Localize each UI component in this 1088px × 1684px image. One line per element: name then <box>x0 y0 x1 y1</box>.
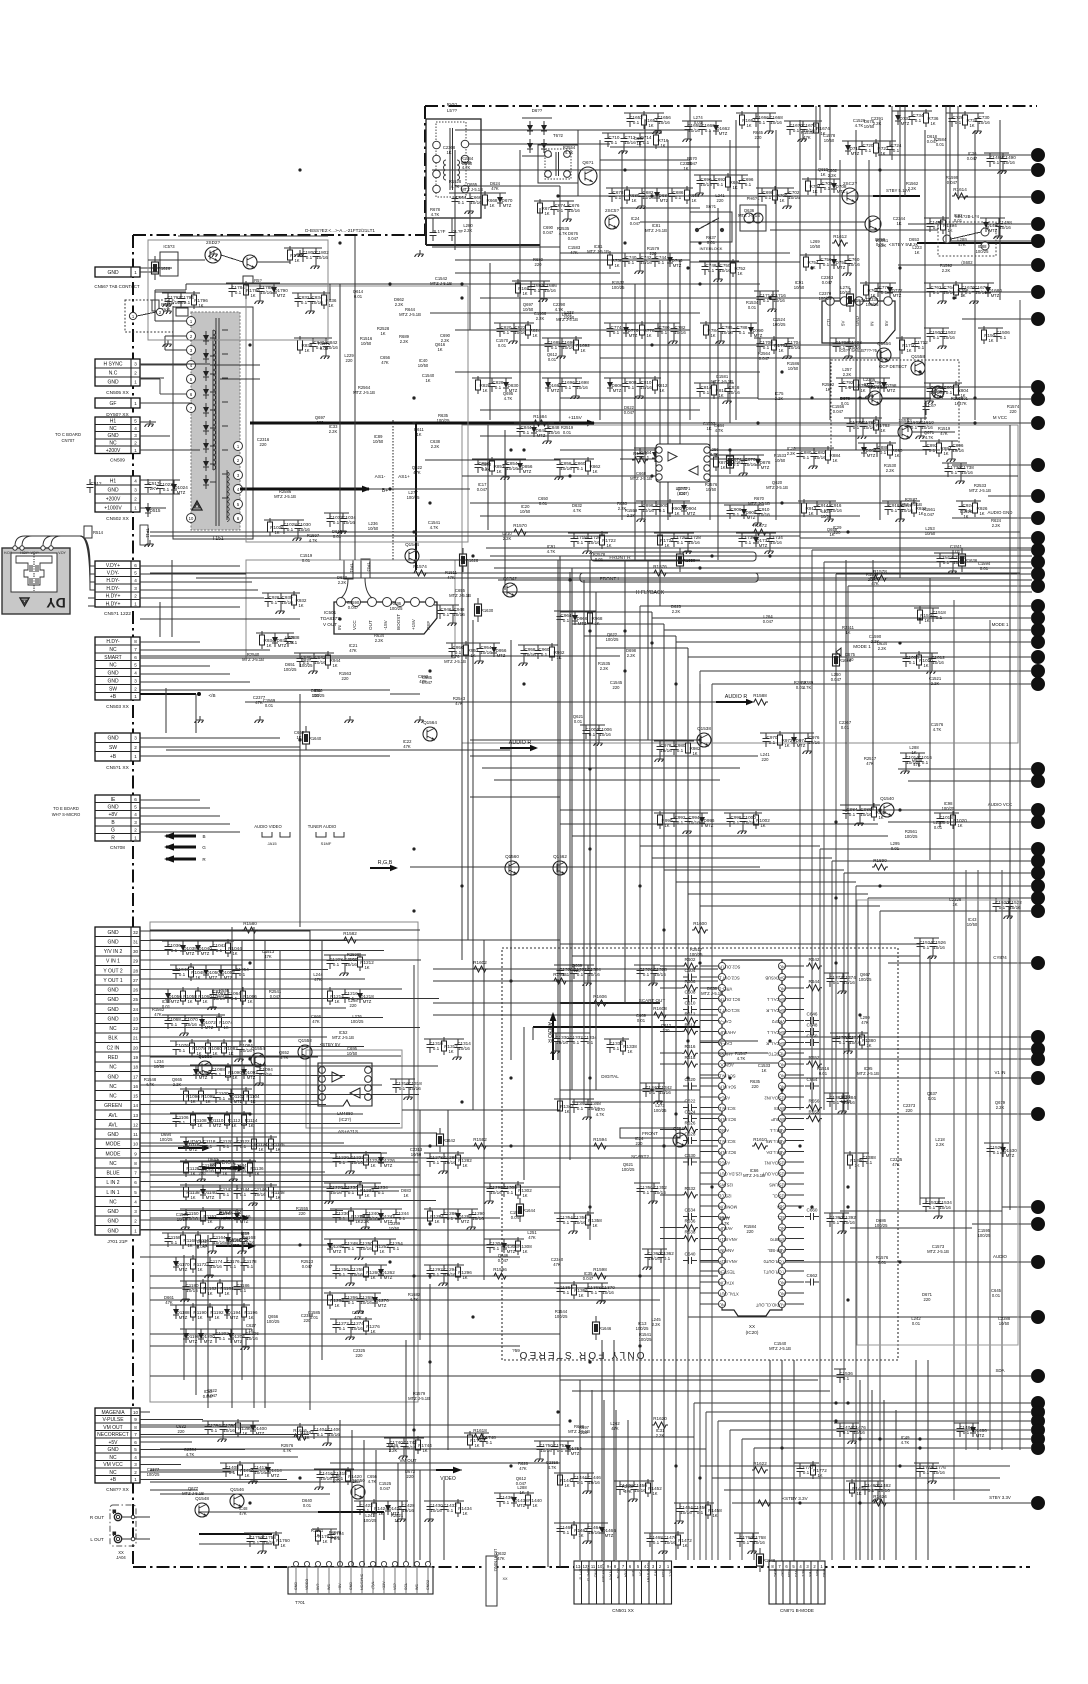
svg-text:INTERLOCK: INTERLOCK <box>700 246 723 251</box>
capacitor C1013 <box>903 753 920 767</box>
wire scart stub <box>140 930 310 932</box>
wire cluster bus <box>640 1082 665 1084</box>
capacitor C1509 <box>918 418 935 432</box>
svg-text:10/16: 10/16 <box>719 268 731 273</box>
node offpage-25 <box>1032 665 1045 678</box>
svg-text:0.1: 0.1 <box>563 1220 570 1225</box>
wire to offpage node <box>758 1036 1032 1038</box>
wire <box>621 150 623 520</box>
op-amp IC202 pin 5 <box>365 1094 372 1101</box>
resistor R967 <box>588 609 603 627</box>
resistor R1025 <box>268 518 285 536</box>
node offpage-28 <box>1032 775 1045 788</box>
svg-text:10/16: 10/16 <box>588 1530 600 1535</box>
svg-text:GND: GND <box>107 433 119 439</box>
svg-text:10/16: 10/16 <box>444 1272 456 1277</box>
capacitor C1757 <box>260 1533 277 1547</box>
svg-text:1K: 1K <box>544 211 549 216</box>
ic IC201 left pin 29 <box>718 1267 735 1274</box>
svg-text:0.1: 0.1 <box>929 1205 936 1210</box>
ground <box>571 392 580 399</box>
wire <box>178 235 328 237</box>
wire <box>712 1477 1000 1479</box>
ic IC201 right pin 34 <box>778 1289 785 1296</box>
capacitor C853 <box>503 459 519 473</box>
svg-text:10: 10 <box>133 1410 139 1415</box>
svg-text:NC: NC <box>719 1302 725 1307</box>
svg-text:VS?: VS? <box>393 1583 397 1590</box>
flyback tick <box>210 373 216 375</box>
svg-text:L IN 1: L IN 1 <box>106 1190 119 1196</box>
resistor R1595 <box>492 1267 508 1279</box>
wire to offpage node <box>1002 1206 1032 1208</box>
wire <box>872 560 874 810</box>
svg-text:10/16: 10/16 <box>574 1220 586 1225</box>
svg-text:10/16: 10/16 <box>430 1508 442 1513</box>
wire cluster bus <box>312 1528 337 1530</box>
wire connector stub <box>140 449 200 451</box>
svg-text:1K: 1K <box>332 663 337 668</box>
ground <box>838 1227 847 1234</box>
svg-text:WS: WS <box>415 1584 419 1590</box>
flyback pin 16 <box>234 514 243 523</box>
connector DY505 <box>95 398 140 418</box>
svg-text:R1594: R1594 <box>593 1137 607 1142</box>
op-amp IC471 pin 5 <box>704 474 710 480</box>
svg-text:V.DY-: V.DY- <box>107 571 120 577</box>
junction <box>588 1076 591 1079</box>
resistor R667 <box>483 191 498 209</box>
wire IC201 left stub <box>700 1052 719 1054</box>
svg-text:0.1: 0.1 <box>943 560 950 565</box>
wire scart stub <box>140 1084 382 1086</box>
svg-text:0.1: 0.1 <box>763 345 770 350</box>
wire bus vertical <box>855 886 857 1560</box>
wire cluster bus <box>604 377 661 379</box>
wire IC201 right stub <box>786 1292 805 1294</box>
svg-text:10/16: 10/16 <box>185 1022 197 1027</box>
svg-text:1K: 1K <box>969 123 974 128</box>
capacitor C1221 <box>348 1153 365 1167</box>
svg-text:0.1: 0.1 <box>839 345 846 350</box>
wire <box>600 159 690 161</box>
capacitor C1765 <box>737 1533 754 1547</box>
svg-text:0.1: 0.1 <box>317 1432 324 1437</box>
transistor Q602 <box>605 208 619 229</box>
svg-text:R1598: R1598 <box>593 1267 607 1272</box>
wire bus vertical <box>799 538 801 1110</box>
wire <box>559 186 561 423</box>
resistor R1103 <box>244 1087 261 1105</box>
svg-text:10/16: 10/16 <box>599 732 611 737</box>
svg-text:8: 8 <box>134 1425 137 1430</box>
ground <box>844 1047 853 1054</box>
wire scart stub <box>140 1219 380 1221</box>
wire <box>300 1469 462 1471</box>
svg-text:GND: GND <box>107 1007 119 1013</box>
resistor R1001 <box>754 811 771 829</box>
capacitor C621 <box>683 1099 697 1112</box>
ground <box>669 337 678 344</box>
wire cluster bus <box>554 1472 594 1474</box>
wire <box>140 618 300 620</box>
resistor R1213 <box>328 987 345 1005</box>
svg-text:0.1: 0.1 <box>507 1190 514 1195</box>
svg-text:NC: NC <box>779 965 785 970</box>
resistor fusible R1645 <box>593 1316 612 1340</box>
wire <box>687 648 689 1262</box>
ground <box>619 147 628 154</box>
ic IC201 left pin 30 <box>718 1278 734 1285</box>
wire <box>560 809 887 811</box>
capacitor C1667 <box>767 113 784 127</box>
svg-text:V.DY: V.DY <box>58 551 66 555</box>
wire <box>430 312 700 314</box>
resistor R1123 <box>252 1135 269 1153</box>
ground <box>798 135 807 142</box>
svg-text:17: 17 <box>133 1075 139 1080</box>
wire scart stub <box>140 1113 363 1115</box>
diode D1529 <box>1000 1143 1017 1157</box>
resistor R512 box <box>243 276 263 284</box>
resistor R1593 <box>592 1137 608 1149</box>
wire +B arrow <box>568 415 596 426</box>
svg-text:0.1: 0.1 <box>240 1144 247 1149</box>
resistor R1095 <box>184 1087 201 1105</box>
svg-text:1K: 1K <box>778 348 783 353</box>
ground <box>425 1515 434 1522</box>
svg-text:1K: 1K <box>274 530 279 535</box>
svg-text:4: 4 <box>134 479 137 484</box>
svg-text:1K: 1K <box>496 469 501 474</box>
capacitor C923 <box>959 501 974 515</box>
svg-text:5: 5 <box>134 1447 137 1452</box>
wire <box>472 620 474 1110</box>
resistor fusible R1629 <box>475 598 494 622</box>
svg-text:GND: GND <box>107 380 119 386</box>
svg-text:R: R <box>111 836 115 842</box>
capacitor C1733 <box>767 533 784 547</box>
ground <box>208 1003 217 1010</box>
capacitor C1201 <box>213 1329 230 1343</box>
junction <box>412 396 415 399</box>
capacitor C1755 <box>247 1533 264 1547</box>
wire bus vertical <box>831 861 833 1560</box>
resistor R1161 <box>196 1231 213 1249</box>
svg-text:GND: GND <box>107 488 119 494</box>
svg-text:R638: R638 <box>685 1230 696 1235</box>
capacitor C633 <box>683 1208 697 1221</box>
svg-text:1K: 1K <box>522 291 527 296</box>
svg-text:Q1556: Q1556 <box>877 341 891 346</box>
svg-text:0.1: 0.1 <box>339 1326 346 1331</box>
capacitor C1029 <box>295 520 312 534</box>
wire <box>480 297 840 299</box>
svg-text:1K: 1K <box>664 543 669 548</box>
wire long vertical <box>965 870 967 1450</box>
svg-text:GND: GND <box>593 1569 598 1578</box>
svg-text:0.1: 0.1 <box>333 962 340 967</box>
wire avsup thick <box>533 1027 700 1040</box>
wire IC201 right stub <box>786 1238 805 1240</box>
flyback diode <box>203 457 209 471</box>
junction <box>650 194 653 197</box>
svg-text:CN503 XX: CN503 XX <box>106 704 129 710</box>
svg-text:4: 4 <box>134 812 137 817</box>
svg-text:10/16: 10/16 <box>658 120 670 125</box>
svg-text:1K: 1K <box>370 1275 375 1280</box>
flyback pin 13 <box>234 471 243 480</box>
svg-text:1K: 1K <box>682 1543 687 1548</box>
capacitor C1497 <box>996 218 1013 232</box>
svg-text:CN5?1 XX: CN5?1 XX <box>106 765 129 771</box>
svg-text:MTZ: MTZ <box>837 189 846 194</box>
svg-text:0.1: 0.1 <box>933 290 940 295</box>
svg-text:I2S.WS: I2S.WS <box>719 1183 733 1188</box>
wire scart stub <box>140 998 439 1000</box>
wire cluster bus <box>180 1280 243 1282</box>
wire <box>640 845 820 847</box>
ic IC201 right pin 41 <box>776 1213 785 1220</box>
wire cluster bus <box>424 1500 464 1502</box>
ground <box>768 305 777 312</box>
svg-text:MTZ: MTZ <box>461 1219 470 1224</box>
svg-text:NC: NC <box>109 1065 117 1071</box>
capacitor C1041 <box>210 941 227 955</box>
svg-text:1K: 1K <box>866 1043 871 1048</box>
ic IC201 right pin 40 <box>778 1224 785 1231</box>
junction <box>780 370 783 373</box>
diode D1115 <box>183 1137 200 1151</box>
ic IC201 left pin 12 <box>718 1082 736 1089</box>
ground <box>956 477 965 484</box>
ground <box>858 432 867 439</box>
resistor R943 <box>326 651 341 669</box>
diode D1225 <box>378 1153 395 1167</box>
capacitor C1391 <box>840 1213 857 1227</box>
junction <box>898 641 901 644</box>
svg-text:10: 10 <box>133 1142 139 1147</box>
svg-text:0.1: 0.1 <box>643 1190 650 1195</box>
wire cluster bus <box>354 1500 408 1502</box>
svg-text:ONLY FOR STEREO: ONLY FOR STEREO <box>517 1349 644 1360</box>
resistor R851 <box>490 457 505 475</box>
svg-text:0.1: 0.1 <box>708 268 715 273</box>
ic IC201 left pin 21 <box>718 1180 732 1187</box>
svg-text:+33V: +33V <box>382 1581 386 1590</box>
resistor R987 <box>872 803 887 821</box>
svg-text:MTZ: MTZ <box>384 1163 393 1168</box>
svg-text:-15V: -15V <box>383 619 388 630</box>
svg-text:1K: 1K <box>489 203 494 208</box>
capacitor C713 <box>637 133 652 147</box>
svg-text:R,G,B: R,G,B <box>378 860 393 866</box>
svg-text:GND: GND <box>107 1209 119 1215</box>
capacitor C1783 <box>229 283 246 297</box>
svg-text:CN8?? XX: CN8?? XX <box>106 1487 129 1493</box>
svg-text:1K: 1K <box>808 511 813 516</box>
svg-text:3: 3 <box>134 433 137 438</box>
ground <box>643 1263 652 1270</box>
svg-text:V-PULSE: V-PULSE <box>102 1417 124 1423</box>
wire <box>498 579 1032 581</box>
ground <box>825 515 834 522</box>
capacitor C1659 <box>699 121 716 135</box>
wire <box>583 580 585 1102</box>
wire IC201 right stub <box>786 1020 805 1022</box>
capacitor C1067 <box>165 1015 182 1029</box>
ground <box>557 352 566 359</box>
svg-text:0.1: 0.1 <box>833 1220 840 1225</box>
capacitor C1303 <box>487 1239 504 1253</box>
switch S601 <box>690 204 732 251</box>
svg-text:1K: 1K <box>364 965 369 970</box>
wire stby2 thick <box>873 188 920 196</box>
ground <box>355 1307 364 1314</box>
svg-text:AS1+: AS1+ <box>398 474 410 480</box>
wire connector stub <box>140 641 200 643</box>
junction <box>898 1260 901 1263</box>
ground <box>973 127 982 134</box>
capacitor C1767 <box>750 1533 767 1547</box>
node offpage-1 <box>1032 149 1045 162</box>
svg-text:CN707: CN707 <box>61 438 75 443</box>
wire to offpage node <box>706 1411 1032 1413</box>
wire cluster bus <box>990 897 1015 899</box>
capacitor C1677 <box>972 283 989 297</box>
wire to offpage node <box>742 1438 1032 1440</box>
ground <box>235 1055 244 1062</box>
svg-text:2SC5?: 2SC5? <box>605 208 619 213</box>
capacitor C1359 <box>645 1249 662 1263</box>
op-amp IC202 pin 8 <box>365 1067 372 1074</box>
svg-text:0.1: 0.1 <box>705 128 712 133</box>
svg-text:REF: REF <box>426 621 431 630</box>
resistor R671 <box>538 199 553 217</box>
svg-text:1K: 1K <box>532 333 537 338</box>
ground <box>448 619 457 626</box>
ground <box>439 1167 448 1174</box>
wire <box>757 106 759 399</box>
capacitor C1747 <box>480 1433 497 1447</box>
ic IC201 right pin 47 <box>766 1148 786 1155</box>
svg-text:10/16: 10/16 <box>770 540 782 545</box>
wire <box>419 1110 421 1340</box>
svg-text:1K: 1K <box>592 469 597 474</box>
wire <box>155 291 186 293</box>
ground <box>654 1097 663 1104</box>
wire <box>601 1340 603 1567</box>
wire cluster bus <box>518 644 558 646</box>
capacitor C1331 <box>567 1033 584 1047</box>
capacitor C1293 <box>441 1265 458 1279</box>
wire IC201 left stub <box>700 1107 719 1109</box>
wire <box>651 612 653 1560</box>
capacitor C949 <box>449 643 464 657</box>
ground <box>340 969 349 976</box>
ground <box>783 202 792 209</box>
svg-text:1K: 1K <box>779 198 784 203</box>
wire cluster bus <box>568 532 608 534</box>
capacitor C827 <box>489 378 504 392</box>
wire cluster bus <box>424 1208 478 1210</box>
wire scart stub <box>140 1046 364 1048</box>
wire <box>868 160 870 301</box>
svg-text:1K: 1K <box>334 1303 339 1308</box>
node offpage-7 <box>1032 286 1045 299</box>
wire <box>560 611 652 613</box>
wire b vertical <box>195 694 197 733</box>
ground <box>276 607 285 614</box>
junction <box>412 1428 415 1431</box>
signal arrow B to CRT <box>164 832 206 839</box>
bridge rectifier D601-D604 <box>522 108 552 156</box>
capacitor C1377 <box>846 1033 863 1047</box>
connector CN8x1 bottom <box>769 1561 827 1613</box>
capacitor C1749 <box>537 1441 554 1455</box>
wire cluster bus <box>846 1480 884 1482</box>
svg-text:10/16: 10/16 <box>562 345 574 350</box>
capacitor C891 <box>923 441 938 455</box>
signal arrow AUDIO L2 <box>178 1140 210 1151</box>
resistor R989 <box>658 811 673 829</box>
resistor R861 <box>586 457 601 475</box>
wire IC201 right stub <box>786 998 805 1000</box>
svg-text:GND: GND <box>822 1569 827 1578</box>
svg-text:TO E BOARD: TO E BOARD <box>53 806 79 811</box>
capacitor C875 <box>741 455 757 469</box>
resistor R693 <box>726 173 741 191</box>
diode D995 <box>699 813 715 827</box>
svg-text:10/16: 10/16 <box>409 1086 421 1091</box>
wire scart stub <box>140 1190 399 1192</box>
wire <box>949 106 951 243</box>
wire IC201 right stub <box>786 1260 805 1262</box>
ground <box>258 1547 267 1554</box>
svg-text:ANA.IN2+: ANA.IN2+ <box>718 1259 737 1264</box>
svg-text:0.1: 0.1 <box>523 430 530 435</box>
wire <box>480 435 900 437</box>
svg-text:0.1: 0.1 <box>993 1150 1000 1155</box>
svg-text:0.1: 0.1 <box>965 290 972 295</box>
svg-text:0.1: 0.1 <box>893 148 900 153</box>
transistor Q1551 <box>298 1038 312 1059</box>
junction <box>898 808 901 811</box>
svg-text:0.1: 0.1 <box>247 1264 254 1269</box>
svg-text:22: 22 <box>133 1026 139 1031</box>
node offpage-3 <box>1032 191 1045 204</box>
svg-text:19: 19 <box>133 1055 139 1060</box>
wire AS1 vertical thick <box>415 422 417 570</box>
flyback pin 6 <box>187 390 196 399</box>
svg-text:0.1: 0.1 <box>909 660 916 665</box>
wire scart stub <box>140 1065 438 1067</box>
capacitor C627 <box>683 1132 697 1145</box>
svg-text:MTZ: MTZ <box>234 1339 243 1344</box>
capacitor C1387 <box>860 1153 877 1167</box>
resistor R921 <box>912 499 927 517</box>
wire IC201 left stub <box>700 976 719 978</box>
net label FRONT L <box>580 573 758 582</box>
svg-text:MTZ: MTZ <box>851 151 860 156</box>
wire cluster bus <box>642 1248 667 1250</box>
svg-text:SC1.OUT.R: SC1.OUT.R <box>719 997 740 1002</box>
wire scart stub <box>140 1104 326 1106</box>
capacitor C1525 <box>930 938 947 952</box>
svg-text:1K: 1K <box>328 303 333 308</box>
svg-text:CVBS A/G: CVBS A/G <box>601 1564 606 1582</box>
svg-text:0.1: 0.1 <box>922 760 929 765</box>
